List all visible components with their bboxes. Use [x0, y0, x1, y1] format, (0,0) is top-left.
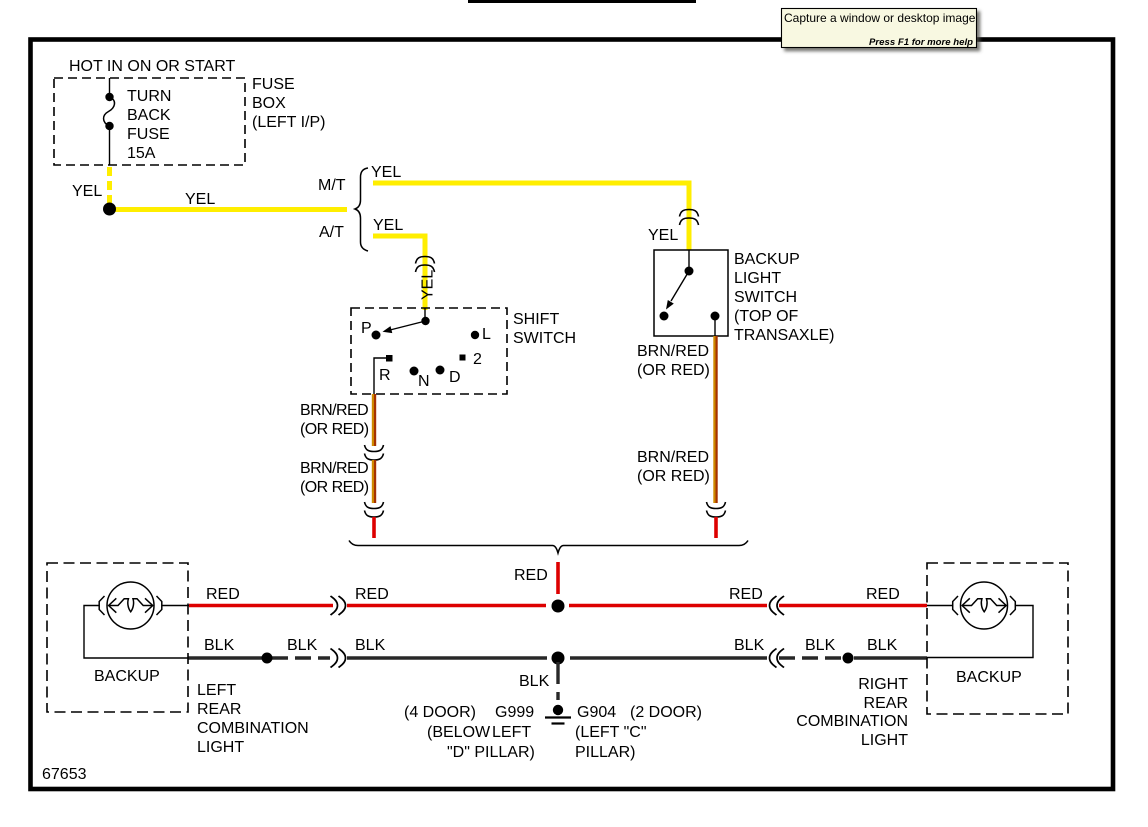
svg-text:BRN/RED: BRN/RED: [300, 460, 368, 477]
wire BRN/RED right drop: [714, 336, 716, 503]
svg-text:LEFT: LEFT: [492, 724, 531, 741]
svg-text:REAR: REAR: [197, 701, 241, 718]
svg-text:YEL: YEL: [420, 270, 437, 300]
connector on left brown wire (upper): [365, 445, 384, 460]
connector on M/T yellow wire: [680, 210, 699, 226]
label LEFT REAR COMBINATION LIGHT: [197, 682, 309, 756]
brace joining both drops to rear feed: [349, 541, 748, 554]
svg-text:FUSE: FUSE: [127, 126, 170, 143]
label BRN/RED (OR RED) lower left: [300, 460, 369, 496]
svg-text:(LEFT "C": (LEFT "C": [575, 724, 647, 741]
svg-text:PILLAR): PILLAR): [575, 744, 635, 761]
svg-text:YEL: YEL: [185, 191, 215, 208]
backup light switch box: [654, 250, 728, 336]
svg-text:BRN/RED: BRN/RED: [637, 449, 709, 466]
svg-text:LIGHT: LIGHT: [734, 270, 781, 287]
connector on right BLK run: [770, 649, 785, 668]
svg-text:RIGHT: RIGHT: [858, 676, 908, 693]
svg-text:G999: G999: [495, 704, 534, 721]
wire YEL M/T branch: [373, 183, 689, 250]
svg-text:LIGHT: LIGHT: [861, 732, 908, 749]
svg-text:TURN: TURN: [127, 88, 171, 105]
svg-text:(LEFT I/P): (LEFT I/P): [252, 114, 326, 131]
shift switch dashed box: [351, 308, 507, 394]
svg-text:(OR RED): (OR RED): [300, 479, 369, 496]
backup bulb left: [99, 582, 162, 629]
labels RED along rear run: [206, 586, 900, 603]
connector on left brown wire (lower): [365, 502, 384, 517]
fuse TURN BACK FUSE 15A: [104, 93, 115, 130]
svg-text:BACKUP: BACKUP: [956, 669, 1022, 686]
svg-text:BACKUP: BACKUP: [94, 668, 160, 685]
wire bulb left to red lead: [162, 605, 189, 607]
connector on right red run: [770, 596, 785, 615]
fuse box dashed border: [54, 78, 245, 165]
backup light switch contacts and lever: [660, 250, 720, 336]
wire BRN/RED left drop upper: [373, 394, 375, 446]
wire red center stub: [556, 562, 560, 594]
svg-text:Capture a window or desktop im: Capture a window or desktop image: [784, 11, 976, 25]
svg-text:BLK: BLK: [805, 637, 836, 654]
svg-text:(TOP OF: (TOP OF: [734, 308, 799, 325]
svg-text:G904: G904: [577, 704, 616, 721]
wire YEL dashed (inside-box continuation): [107, 167, 112, 203]
svg-text:BLK: BLK: [204, 637, 235, 654]
fuse value label TURN BACK FUSE 15A: [127, 88, 171, 162]
ground G999/G904: [545, 705, 571, 724]
connector on right brown wire: [707, 502, 726, 517]
wire red stub below right connector: [714, 517, 718, 538]
wire into shift switch: [424, 308, 426, 321]
svg-text:15A: 15A: [127, 145, 156, 162]
svg-text:BACKUP: BACKUP: [734, 251, 800, 268]
wire BRN/RED left drop lower: [373, 460, 375, 503]
node junction dot: [103, 203, 116, 216]
node splice dot right BLK: [843, 653, 854, 664]
wire YEL horizontal to brace: [110, 207, 348, 212]
wire RED rear run: [189, 604, 927, 608]
svg-text:COMBINATION: COMBINATION: [796, 713, 908, 730]
connector on left BLK run: [331, 649, 346, 668]
wire from R contact to box edge: [374, 358, 386, 394]
label BACKUP LIGHT SWITCH (TOP OF TRANSAXLE): [734, 251, 834, 344]
svg-text:(OR RED): (OR RED): [300, 421, 369, 438]
label BRN/RED (OR RED) right upper: [637, 343, 710, 379]
svg-text:(2 DOOR): (2 DOOR): [630, 704, 702, 721]
svg-text:(OR RED): (OR RED): [637, 468, 710, 485]
wire from fuse to box edge: [109, 126, 111, 165]
svg-text:FUSE: FUSE: [252, 76, 295, 93]
svg-text:REAR: REAR: [864, 695, 908, 712]
svg-text:BLK: BLK: [355, 637, 386, 654]
label G904 (2 DOOR) (LEFT "C" PILLAR): [575, 704, 702, 761]
svg-text:YEL: YEL: [72, 183, 102, 200]
backup bulb right: [953, 582, 1016, 629]
svg-text:HOT IN ON OR START: HOT IN ON OR START: [69, 58, 235, 75]
label SHIFT SWITCH: [513, 311, 576, 347]
svg-text:COMBINATION: COMBINATION: [197, 720, 309, 737]
svg-text:"D" PILLAR): "D" PILLAR): [447, 744, 535, 761]
svg-text:R: R: [379, 367, 391, 384]
node junction dot on BLK run: [552, 652, 565, 665]
node splice dot left BLK: [262, 653, 273, 664]
svg-text:Press F1 for more help: Press F1 for more help: [869, 37, 973, 48]
svg-text:A/T: A/T: [319, 224, 344, 241]
svg-text:SWITCH: SWITCH: [513, 330, 576, 347]
svg-text:2: 2: [473, 351, 482, 368]
wire BLK ground lead: [556, 662, 559, 684]
svg-text:YEL: YEL: [373, 217, 403, 234]
svg-text:YEL: YEL: [648, 227, 678, 244]
svg-text:N: N: [418, 373, 430, 390]
left rear combination light dashed box: [47, 563, 188, 712]
svg-text:RED: RED: [866, 586, 900, 603]
svg-text:BLK: BLK: [734, 637, 765, 654]
toolbar edge strip top center: [468, 0, 696, 3]
label (4 DOOR) G999 (BELOW LEFT "D" PILLAR): [404, 704, 535, 761]
connector on left red run: [331, 596, 346, 615]
wire bulb right loop to BLK: [927, 606, 1033, 658]
svg-text:(BELOW: (BELOW: [427, 724, 491, 741]
svg-text:LIGHT: LIGHT: [197, 739, 244, 756]
svg-text:BOX: BOX: [252, 95, 286, 112]
wire from hot feed into fuse: [109, 78, 111, 97]
tooltip Capture a window or desktop image: [782, 9, 977, 48]
right rear combination light dashed box: [927, 563, 1068, 714]
svg-text:BRN/RED: BRN/RED: [637, 343, 709, 360]
svg-text:BLK: BLK: [867, 637, 898, 654]
svg-text:BLK: BLK: [519, 673, 550, 690]
brace splitting M/T and A/T: [355, 168, 368, 251]
shift switch contacts and lever: [372, 317, 480, 376]
svg-text:D: D: [449, 369, 461, 386]
svg-text:RED: RED: [355, 586, 389, 603]
svg-text:RED: RED: [206, 586, 240, 603]
svg-text:(4 DOOR): (4 DOOR): [404, 704, 476, 721]
svg-text:BACK: BACK: [127, 107, 171, 124]
svg-text:BRN/RED: BRN/RED: [300, 402, 368, 419]
wire BLK rear run: [188, 656, 927, 659]
label RIGHT REAR COMBINATION LIGHT: [796, 676, 908, 749]
svg-text:L: L: [482, 326, 491, 343]
svg-text:BLK: BLK: [287, 637, 318, 654]
node junction dot on red run: [552, 600, 565, 613]
shift switch position labels: [361, 320, 491, 390]
connector on A/T yellow wire: [416, 257, 435, 273]
svg-text:LEFT: LEFT: [197, 682, 236, 699]
svg-text:(OR RED): (OR RED): [637, 362, 710, 379]
svg-text:TRANSAXLE): TRANSAXLE): [734, 327, 834, 344]
labels BLK along rear run: [204, 637, 898, 654]
svg-text:SWITCH: SWITCH: [734, 289, 797, 306]
svg-text:M/T: M/T: [318, 177, 346, 194]
svg-text:RED: RED: [729, 586, 763, 603]
svg-text:67653: 67653: [42, 766, 87, 783]
wire bulb left loop to BLK: [84, 606, 188, 659]
svg-text:SHIFT: SHIFT: [513, 311, 559, 328]
svg-text:P: P: [361, 320, 372, 337]
wire bulb right to red lead: [927, 605, 953, 607]
svg-text:YEL: YEL: [371, 164, 401, 181]
label BRN/RED (OR RED) right lower: [637, 449, 710, 485]
wire YEL A/T branch: [373, 236, 425, 310]
label BRN/RED (OR RED) upper left: [300, 402, 369, 438]
svg-text:RED: RED: [514, 567, 548, 584]
fuse box name label FUSE BOX (LEFT I/P): [252, 76, 326, 131]
wire red stub below left connector: [372, 517, 376, 538]
